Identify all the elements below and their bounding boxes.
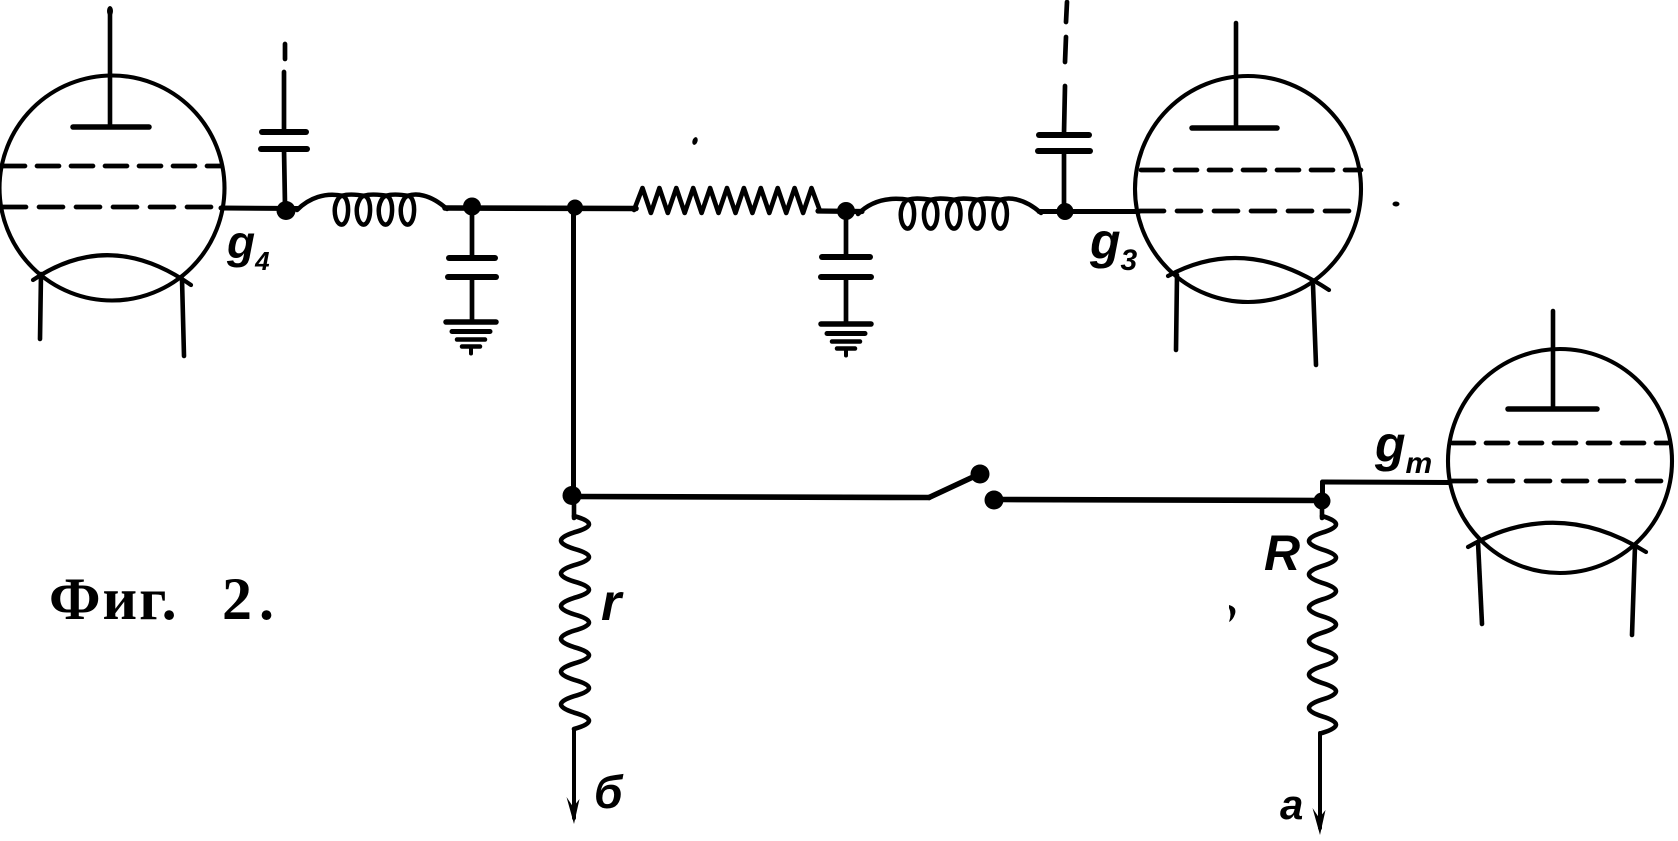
svg-text:б: б xyxy=(594,766,624,818)
svg-text:2.: 2. xyxy=(222,566,281,632)
svg-text:R: R xyxy=(1264,525,1300,581)
svg-text:Фиг.: Фиг. xyxy=(49,566,179,632)
svg-text:r: r xyxy=(601,574,624,632)
svg-text:а: а xyxy=(1280,781,1303,828)
